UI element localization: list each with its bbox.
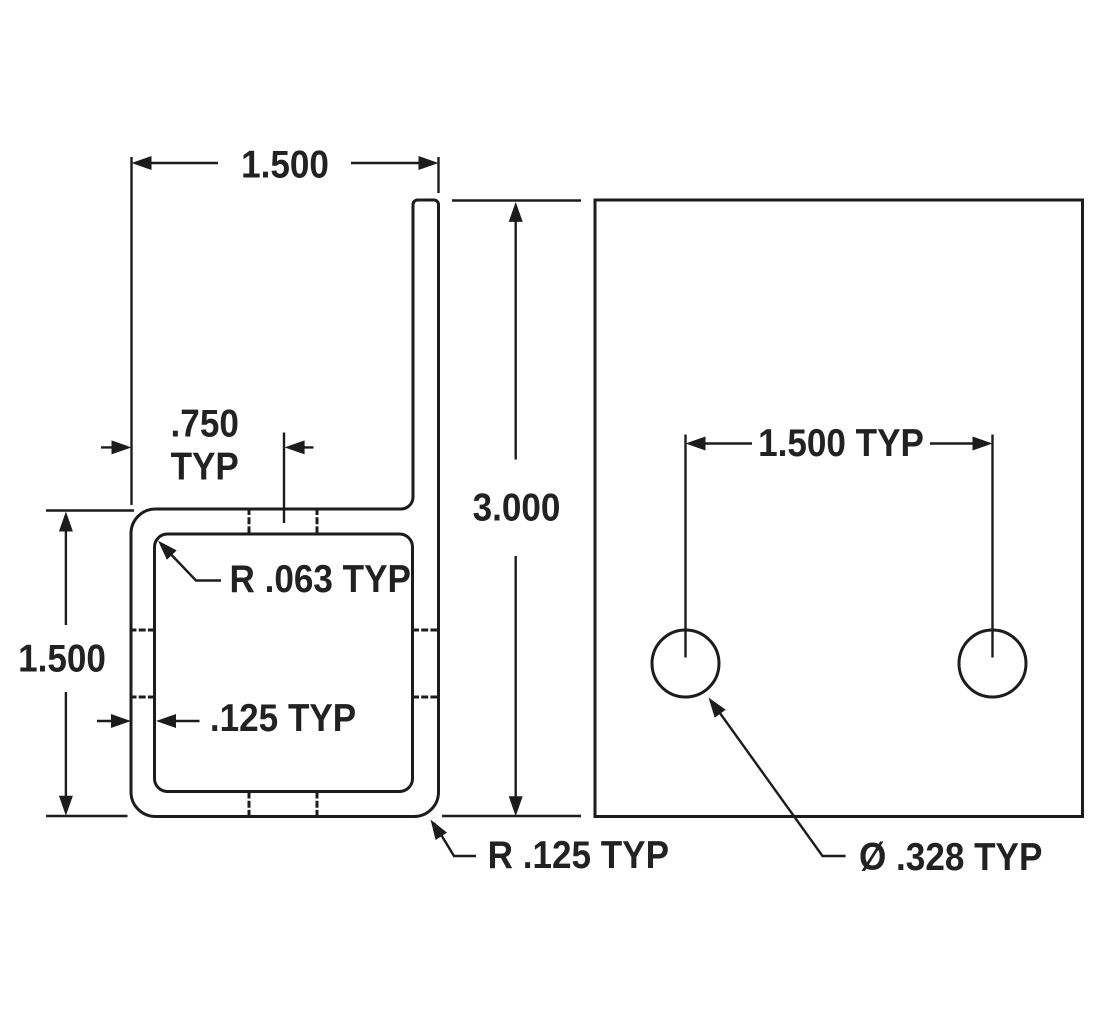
extension lines for left 1.500 dimension: [46, 511, 134, 817]
arrowhead top 1.500 right: [419, 156, 439, 170]
arrowhead 3.000 up: [509, 202, 523, 222]
hole right (front view): [959, 630, 1026, 697]
svg-text:3.000: 3.000: [473, 485, 561, 529]
svg-text:1.500: 1.500: [18, 636, 106, 680]
dimension line 3.000: [515, 206, 517, 810]
arrowhead .750 pointing left: [285, 440, 305, 454]
arrowhead .750 pointing right: [112, 440, 132, 454]
arrowhead leader R .063: [158, 541, 177, 560]
arrowhead 3.000 down: [509, 796, 523, 816]
dimension line 1.500 TYP: [698, 442, 980, 444]
part outline: bracket profile (left view): [131, 200, 439, 817]
svg-text:TYP: TYP: [171, 444, 239, 488]
hidden hole edges, top wall: [130, 508, 439, 818]
svg-text:1.500: 1.500: [241, 142, 329, 186]
arrowhead .125 pointing right: [111, 714, 131, 728]
svg-text:R .125 TYP: R .125 TYP: [488, 832, 669, 876]
arrowhead top 1.500 left: [132, 156, 152, 170]
svg-text:Ø .328 TYP: Ø .328 TYP: [859, 834, 1042, 878]
svg-text:.125 TYP: .125 TYP: [210, 695, 356, 739]
dimension line left 1.500: [65, 516, 67, 811]
arrowhead left 1.500 down: [59, 796, 73, 816]
hidden hole edges, left wall: [130, 630, 156, 697]
dimension line top 1.500: [151, 162, 429, 164]
arrowhead left 1.500 up: [59, 512, 73, 532]
arrowhead 1.500 TYP left: [686, 437, 706, 451]
arrowhead .125 pointing left: [156, 714, 176, 728]
svg-text:1.500 TYP: 1.500 TYP: [758, 420, 924, 464]
front view plate outline (right view): [595, 200, 1083, 817]
arrowhead leader diameter .328: [709, 698, 726, 718]
extension lines for 3.000 dimension: [442, 201, 581, 817]
inner bore of square tube: [155, 534, 413, 792]
extension lines for top 1.500 dimension: [132, 157, 439, 505]
dimension .750 TYP tails: [101, 446, 314, 448]
leader line R .063 TYP: [162, 545, 221, 581]
hidden hole edges, right wall: [412, 630, 439, 697]
dimension .125 TYP tails: [97, 720, 200, 722]
arrowhead 1.500 TYP right: [973, 437, 993, 451]
extension lines for 1.500 TYP (front view): [686, 435, 993, 658]
leader line diameter .328 TYP: [712, 702, 846, 856]
svg-text:.750: .750: [171, 401, 239, 445]
svg-text:R .063 TYP: R .063 TYP: [230, 556, 411, 600]
arrowhead leader R .125: [431, 820, 448, 841]
hole left (front view): [652, 630, 719, 697]
leader line R .125 TYP: [434, 823, 476, 856]
hole centerline for .750 TYP: [283, 433, 285, 524]
hidden hole edges, bottom wall: [249, 792, 317, 818]
